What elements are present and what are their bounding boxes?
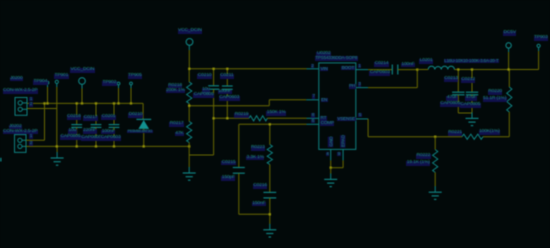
wire C0217 to GND bus [95, 127, 97, 146]
wire bus to C0201 [113, 103, 115, 124]
footprint CAP0805 (C0213) [440, 102, 461, 107]
wire TP901 to GND wire [56, 87, 58, 109]
ground D (IC) [324, 173, 337, 186]
pin number 7 [312, 94, 315, 99]
junction on GND bus [95, 145, 97, 147]
capacitor C0210 [208, 86, 219, 89]
footprint CAP0805 (C0212) [460, 103, 481, 108]
designator C0215 [221, 161, 236, 166]
wire J0202 pin 1 riser to bus [44, 103, 46, 140]
junction on GND bus [56, 145, 58, 147]
designator C0214 [374, 62, 389, 67]
wire C0218 to GND bus [76, 127, 78, 146]
value 220nF (C0217) [83, 129, 97, 134]
pin name GND (vertical) [328, 136, 334, 148]
test point TP905 [130, 82, 133, 85]
value 100K 1% (R0221) [479, 130, 501, 135]
designator D0210 [128, 113, 143, 118]
wire C0216 to GND [269, 198, 271, 214]
value L16U-10X10-100K-3.6A-20-T [444, 59, 499, 63]
wire TP905 to bus [130, 88, 132, 103]
pin name VIN [320, 67, 328, 71]
pin name COMP [320, 121, 334, 125]
designator TP905 [128, 74, 143, 79]
pin number 8 [311, 113, 314, 118]
wire C0215 to GND corner [238, 173, 240, 214]
pin number 1 [358, 64, 361, 69]
designator J0200 [10, 77, 24, 82]
wire VCC_DCIN port to bus [81, 89, 83, 104]
junction [212, 117, 214, 119]
value CON-WX-2.5-2P (J0202) [3, 130, 38, 135]
value 150nF (C0216) [252, 202, 266, 207]
capacitor C0211 [222, 86, 233, 89]
junction [226, 117, 228, 119]
value 10u (C0210) [202, 88, 211, 93]
pin 2 stub VIN [307, 68, 319, 70]
pin number 2 [311, 64, 314, 69]
pin name BOOT [341, 66, 354, 70]
junction [226, 68, 228, 70]
wire TP903 drop [538, 51, 540, 70]
value 19.1K 1% (R0222) [406, 161, 430, 166]
designator R0221 [448, 131, 463, 136]
wire J0202 pin 2 to GND bus [26, 145, 57, 147]
footprint CAP0805 (C0217) [81, 136, 102, 141]
junction on VCC_DCIN bus [46, 102, 48, 104]
pin number 3 [358, 82, 361, 87]
value 47uF (C0212) [465, 96, 477, 101]
wire J0202 pin 1 [26, 139, 45, 141]
value 47K (R0217) [175, 132, 184, 137]
capacitor C0217 [91, 125, 102, 128]
wire bus to C0217 [95, 103, 97, 124]
wire VOUT to C0213 [457, 70, 459, 93]
designator R0218 [168, 84, 183, 89]
pin number 5 [358, 113, 361, 118]
designator C0213 [444, 77, 459, 82]
value 100nF (C0201) [101, 130, 115, 135]
junction on GND bus [76, 145, 78, 147]
wire C0214 to PH node [398, 69, 418, 71]
wire PH riser [416, 70, 418, 88]
junction on VCC_DCIN bus [113, 102, 115, 104]
designator C0218 [67, 115, 82, 120]
wire PH node to L0201 [417, 69, 428, 71]
pin number 2 [29, 141, 32, 146]
wire EN net horizontal [189, 105, 269, 107]
wire VCC_DCIN port to VIN bus [188, 50, 190, 69]
ground C [263, 224, 276, 237]
wire GND bus [57, 145, 189, 147]
ground F (output caps) [466, 112, 479, 125]
test point TP904 [46, 81, 49, 84]
connector J0200 [15, 98, 27, 116]
wire BOOT to C0214 [368, 69, 392, 71]
wire VOUT to R0220 [508, 70, 510, 88]
inductor L0201 [428, 66, 454, 69]
ground A (input) [51, 152, 64, 165]
footprint CAP0603 (C0211) [219, 96, 240, 101]
connector J0202 [15, 135, 27, 153]
test point TP902 [117, 82, 120, 85]
junction on VCC_DCIN bus [95, 102, 97, 104]
pin number 2 [29, 102, 32, 107]
wire VIN bus [189, 68, 306, 70]
designator R0222 [416, 154, 431, 159]
value 100nF (C0214) [401, 63, 415, 68]
wire VOUT to C0212 [471, 70, 473, 93]
junction [212, 68, 214, 70]
power port VCC_DCIN left [79, 78, 86, 85]
wire COMP to C0215 [238, 124, 240, 167]
wire C0211 to GND stub [226, 89, 228, 118]
footprint CAP0603 (C0201) [100, 136, 121, 141]
junction on VCC_DCIN bus [130, 102, 132, 104]
wire C0210 to GND link [213, 89, 215, 155]
pin 6 stub COMP [307, 123, 319, 125]
pin 3 stub PH [356, 87, 368, 89]
wire EN net to pin [269, 99, 306, 101]
junction on GND bus [143, 145, 145, 147]
junction on GND bus [113, 145, 115, 147]
wire TP904 to bus [47, 87, 49, 103]
junction on VCC_DCIN bus [43, 102, 45, 104]
designator TP904 [33, 80, 48, 85]
wire VIN to C0211 [226, 69, 228, 86]
net label DC5V [503, 31, 516, 36]
pin name EN [321, 98, 328, 102]
pin 5 stub VSENSE [356, 118, 368, 120]
wire R0223 to C0216 [269, 165, 271, 193]
footprint CAP0805 (C0218) [60, 135, 81, 140]
wire R0220 down [508, 112, 510, 137]
value 51.1R 1% (R0220) [483, 97, 507, 102]
wire VIN to C0210 [213, 69, 215, 86]
value P6SMB6.8AT3G (D0210) [127, 130, 153, 133]
designator R0223 [251, 146, 266, 151]
ground B [183, 167, 196, 180]
pin number 1 [29, 134, 32, 139]
resistor R0220 [507, 87, 512, 112]
wire VSENSE horizontal [368, 136, 462, 138]
wire GND link horizontal y155 [189, 154, 213, 156]
test point TP901 [55, 80, 58, 83]
footprint CAP0603 (C0214) [369, 71, 390, 76]
designator TP901 [54, 74, 69, 79]
junction on GND bus [188, 145, 190, 147]
wire GND stub to R0219 [214, 117, 249, 119]
capacitor C0201 [109, 125, 120, 128]
designator C0210 [197, 74, 212, 79]
value 10u (C0218) [68, 129, 77, 134]
pin 8 stub RT [307, 117, 319, 119]
resistor R0218 [187, 82, 192, 104]
designator R0219 [234, 113, 249, 118]
pin 4 stub GND [330, 149, 332, 160]
designator C0217 [83, 116, 98, 121]
wire to ground A [56, 146, 58, 152]
designator U0202 [316, 52, 331, 57]
wire R0219 to RT pin [267, 117, 306, 119]
designator C0212 [461, 78, 476, 83]
junction on VOUT [457, 68, 459, 70]
value 200K 1% (R0218) [166, 89, 186, 94]
wire VIN to R0218 [188, 69, 190, 82]
capacitor C0214 [392, 65, 398, 75]
wire C0212 down [471, 95, 473, 113]
junction [269, 213, 271, 215]
designator C0216 [253, 184, 268, 189]
designator C0211 [220, 74, 234, 79]
wire GND vertical drop [56, 109, 58, 147]
junction VSENSE divider [434, 136, 436, 138]
designator R0217 [169, 122, 184, 127]
pin name EPAD (vertical) [340, 134, 346, 148]
power port DC5V [506, 43, 511, 48]
op-amp U1 : IC U0202 TPS54336DDA body [319, 63, 356, 149]
wire COMP net [239, 123, 307, 125]
TVS diode D0210 [136, 119, 151, 128]
value 47uF (C0213) [446, 96, 458, 101]
value 150K 1% (R0219) [266, 111, 286, 116]
capacitor C0213 [452, 92, 464, 95]
footprint CAP0805 (C0210) [193, 93, 214, 98]
junction on VCC_DCIN bus [76, 102, 78, 104]
wire J0200 pin 2 to GND drop [27, 108, 57, 110]
svg-text:GND: GND [328, 136, 333, 147]
ground E [429, 186, 442, 199]
wire TP902 to bus [118, 88, 120, 103]
wire C0201 to GND bus [113, 127, 115, 146]
pin number 9 [337, 152, 340, 157]
svg-text:EPAD: EPAD [341, 134, 346, 147]
resistor R0222 [433, 150, 438, 173]
value 3.3K 1% (R0223) [246, 156, 264, 161]
junction on VCC_DCIN bus [117, 102, 119, 104]
resistor R0223 [267, 145, 272, 165]
node A left edge tick [0, 158, 2, 162]
wire EN to R0217 [188, 106, 190, 122]
wire to ground C [269, 214, 271, 224]
pin 7 stub EN [306, 99, 319, 101]
junction PH/BOOT cap [416, 68, 418, 70]
value TPS54336DDA-SOP8 [315, 56, 358, 60]
pin 1 stub BOOT [356, 69, 368, 71]
designator R0220 [488, 90, 503, 95]
capacitor C0216 [263, 192, 276, 198]
value CON-WX-2.5-2P (J0200) [3, 89, 38, 94]
pin name PH [349, 84, 356, 88]
junction [269, 123, 271, 125]
wire VOUT DC5V net [454, 69, 538, 71]
resistor R0217 [187, 122, 192, 143]
wire to ground D [330, 168, 332, 174]
designator L0201 [419, 59, 433, 64]
designator J0202 [9, 125, 23, 130]
wire D0210 to GND bus [143, 129, 145, 147]
junction on VOUT [471, 68, 473, 70]
pin number 6 [311, 119, 314, 124]
pin name RT [320, 116, 327, 120]
wire R0222 to ground E [434, 172, 436, 186]
wire C0213-C0212 gnd link [458, 112, 472, 114]
wire EPAD pin down [342, 160, 344, 167]
wire PH net [368, 87, 417, 89]
pin 9 stub EPAD [342, 149, 344, 160]
wire C0215 gnd horizontal [239, 213, 270, 215]
pin number 1 [29, 97, 32, 102]
capacitor C0218 [71, 125, 82, 128]
wire bus VCC_DCIN from J0200 pin 1 [27, 102, 143, 104]
wire to R0222 [434, 137, 436, 150]
capacitor C0212 [466, 92, 478, 95]
designator TP903 [534, 36, 549, 41]
wire EN net riser [268, 100, 270, 106]
resistor R0219 [249, 116, 267, 121]
net label VCC_DCIN right [178, 29, 203, 34]
junction on VCC_DCIN bus [81, 102, 83, 104]
wire R0218 to EN net [188, 104, 190, 106]
wire VSENSE drop [367, 119, 369, 137]
wire C0213 down [457, 95, 459, 113]
wire R0220 to R0221 [483, 136, 509, 138]
value 150pF (C0215) [221, 176, 235, 181]
wire GND-EPAD link [331, 167, 343, 169]
wire COMP to R0223 [269, 124, 271, 144]
wire to ground F [471, 112, 473, 114]
wire DC5V port drop [508, 52, 510, 70]
pin number 4 [326, 152, 329, 157]
test point TP903 [537, 44, 540, 47]
junction GND pins [330, 167, 332, 169]
junction [188, 68, 190, 70]
capacitor C0215 [233, 168, 245, 174]
power port VCC_DCIN right [186, 39, 193, 46]
wire bus to C0218 [76, 103, 78, 124]
value 100nF (C0211) [218, 90, 232, 95]
designator C0201 [101, 115, 116, 120]
designator TP902 [102, 81, 117, 86]
wire bus to D0210 [142, 103, 144, 119]
pin name VSENSE [337, 117, 356, 121]
junction on VOUT [507, 68, 509, 70]
wire R0217 to ground B [188, 143, 190, 168]
wire GND pin down [330, 160, 332, 167]
junction [188, 105, 190, 107]
resistor R0221 [462, 134, 483, 139]
net label VCC_DCIN left [70, 68, 95, 73]
